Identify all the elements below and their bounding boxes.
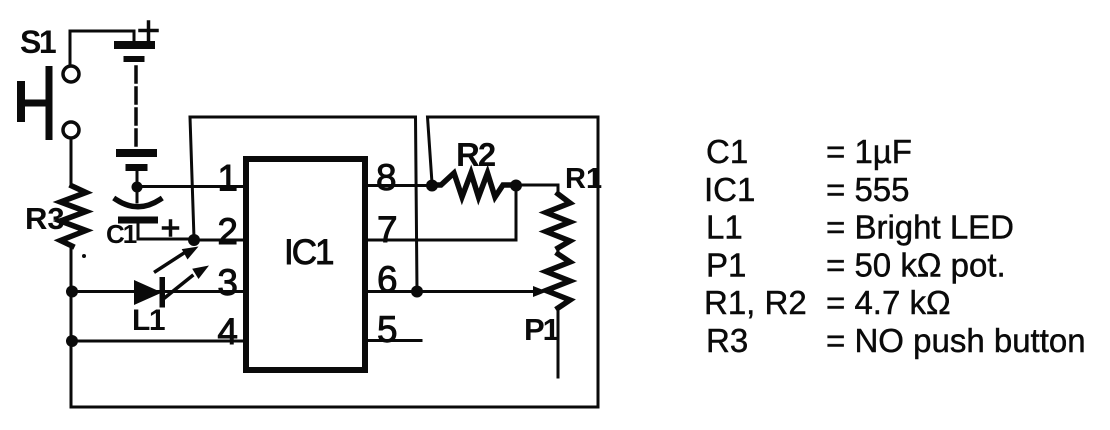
svg-text:IC1: IC1 (704, 171, 755, 208)
svg-text:S1: S1 (20, 24, 56, 60)
speck (82, 254, 86, 258)
svg-text:4: 4 (217, 311, 238, 352)
svg-text:P1: P1 (524, 312, 560, 347)
svg-text:= 50 kΩ pot.: = 50 kΩ pot. (826, 246, 1006, 283)
wire pin 8 (365, 184, 432, 187)
svg-text:L1: L1 (132, 304, 165, 337)
junction pin6 / frame A (411, 286, 423, 298)
svg-text:R3: R3 (706, 322, 748, 359)
svg-text:= 4.7 kΩ: = 4.7 kΩ (826, 284, 951, 321)
wire P1 bottom lead (557, 308, 560, 377)
wire pin 4 (72, 340, 247, 343)
wire pin 6 with wiper arrow (365, 290, 535, 293)
frame A: pin2 node up over IC to pin6 node (190, 117, 417, 292)
svg-text:R1, R2: R1, R2 (704, 284, 807, 321)
svg-text:P1: P1 (706, 246, 746, 283)
svg-text:2: 2 (217, 211, 238, 252)
svg-text:C1: C1 (706, 133, 748, 170)
op-amp/timer IC1 box (246, 159, 365, 370)
svg-text:= NO push button: = NO push button (826, 322, 1086, 359)
junction pin 2 node (188, 234, 200, 246)
junction battery/pin1/C1 (132, 182, 143, 193)
svg-text:= Bright LED: = Bright LED (826, 209, 1014, 246)
wire pin 5 stub (365, 339, 421, 342)
junction R2 right (510, 180, 522, 192)
resistor R1 (546, 194, 570, 248)
wire pin 1 (137, 185, 247, 188)
svg-text:R3: R3 (25, 201, 65, 236)
LED L1 (134, 247, 209, 308)
svg-text:6: 6 (377, 259, 398, 300)
svg-text:3: 3 (217, 262, 238, 303)
resistor R3 (61, 186, 87, 246)
svg-text:R1: R1 (565, 163, 602, 195)
switch S1 (17, 66, 79, 140)
svg-text:1: 1 (217, 158, 238, 199)
junction left rail / pin4 (66, 335, 78, 347)
svg-text:= 1µF: = 1µF (826, 133, 912, 170)
svg-text:R2: R2 (456, 136, 496, 173)
legend column: values (826, 133, 1086, 359)
svg-text:= 555: = 555 (826, 171, 910, 208)
battery B1 (multi-cell, dashed) (114, 22, 157, 184)
svg-text:8: 8 (376, 157, 397, 198)
legend column: component names (704, 133, 807, 359)
wire pin 3 (72, 290, 247, 293)
potentiometer P1 (557, 248, 560, 254)
wire pin 7 (up to R2 right node) (365, 185, 516, 240)
junction R2 left / pin8 (426, 180, 438, 192)
svg-text:7: 7 (377, 209, 398, 250)
frame B: top right rail (428, 117, 599, 407)
wire S1 top to battery (70, 31, 134, 66)
capacitor C1 (116, 191, 192, 239)
svg-text:IC1: IC1 (284, 233, 333, 272)
junction left rail / pin3 (66, 286, 78, 298)
wire R2 to R1 top (516, 185, 558, 194)
svg-text:5: 5 (377, 309, 398, 350)
wire pin 2 (194, 239, 247, 242)
left rail and bottom frame (71, 138, 598, 407)
resistor R2 (432, 173, 516, 197)
svg-text:L1: L1 (706, 209, 743, 246)
svg-text:C1: C1 (106, 219, 137, 249)
